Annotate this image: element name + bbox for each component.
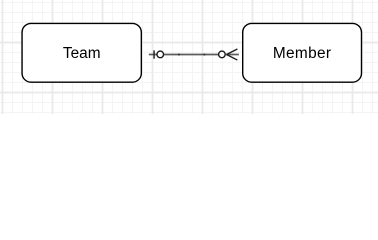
svg-text:Team: Team xyxy=(63,45,101,62)
waypoint dot A on relationship line xyxy=(178,54,180,56)
marker zero circle (Member side) xyxy=(219,51,226,58)
marker crow's foot many (Member side) xyxy=(226,49,239,60)
entity Member xyxy=(243,23,362,82)
marker mandatory-one tick (Team side) xyxy=(153,50,155,58)
waypoint dot B on relationship line xyxy=(204,54,206,56)
entity Team xyxy=(22,23,141,82)
svg-text:Member: Member xyxy=(273,45,332,62)
marker zero circle (Team side) xyxy=(157,51,164,58)
wire relationship line Team-Member xyxy=(149,54,219,56)
